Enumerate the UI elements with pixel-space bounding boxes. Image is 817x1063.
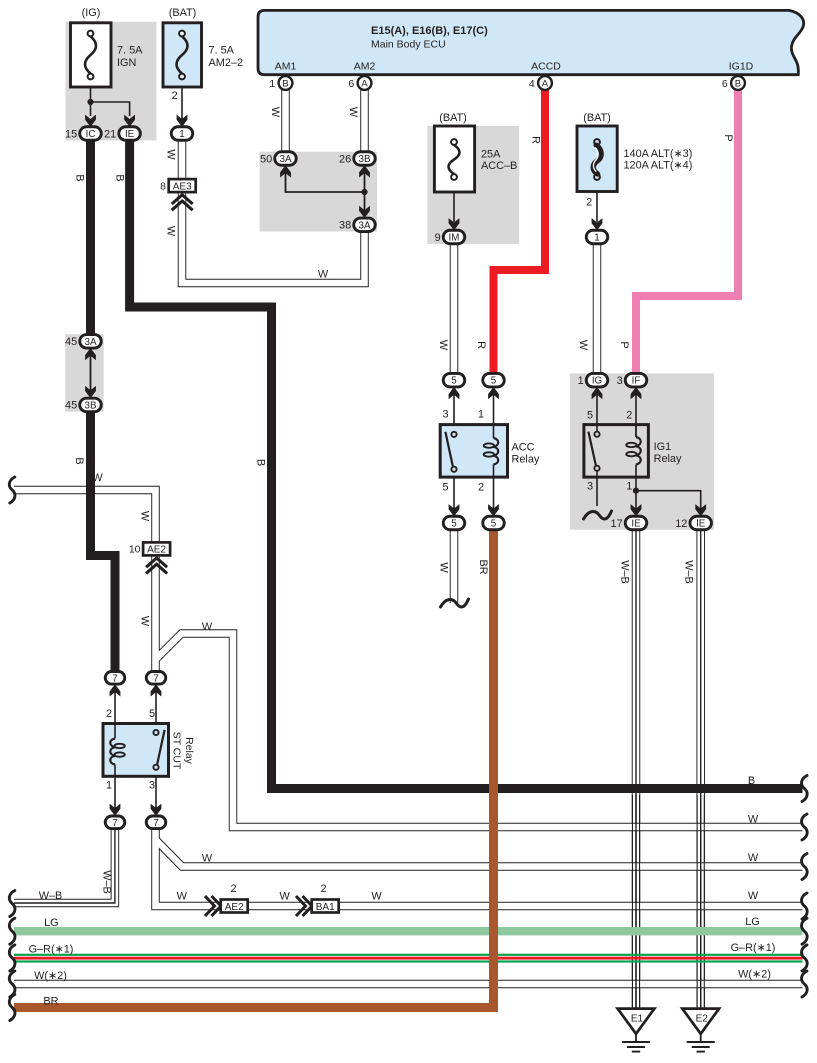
fusible link ALT 140A/120A (577, 126, 617, 192)
svg-text:15: 15 (65, 128, 77, 140)
connector 5 (ACC relay pin1) (483, 373, 505, 387)
break symbol right W row3 (802, 893, 808, 919)
svg-text:LG: LG (44, 917, 59, 929)
wire ST CUT pin3 stub (155, 770, 157, 812)
svg-text:AM2–2: AM2–2 (209, 57, 244, 69)
break symbol left LG (9, 918, 15, 944)
op-amp: Main Body ECU block (258, 10, 804, 74)
node junction at 3B column (361, 189, 367, 195)
svg-text:B: B (282, 79, 288, 90)
connector IE (pin 12) (675, 516, 711, 530)
wire ST CUT pin1 stub (114, 776, 116, 812)
connector 7 (ST CUT pin5) (146, 672, 166, 685)
svg-text:5: 5 (451, 519, 457, 530)
svg-text:BR: BR (477, 559, 489, 574)
connector 3A (pin 45) (65, 335, 101, 349)
op: ACC relay coil (494, 438, 499, 465)
svg-text:IF: IF (632, 376, 641, 387)
connector 1 below AM2-2 fuse (171, 127, 193, 141)
wire IG1 relay pin3 stub (596, 471, 598, 506)
svg-text:W–B: W–B (683, 560, 695, 584)
svg-text:W: W (318, 269, 329, 281)
svg-text:3: 3 (587, 480, 593, 492)
junction block shading (45 3A/3B connectors) (65, 334, 104, 411)
svg-text:IG: IG (592, 376, 602, 387)
svg-text:W: W (437, 340, 449, 351)
node junction on IG1 pin1 (633, 488, 639, 494)
svg-text:W(∗2): W(∗2) (738, 969, 771, 981)
wire LG bus (14, 927, 803, 935)
relay ST CUT (103, 724, 169, 777)
svg-text:4: 4 (529, 78, 535, 90)
break symbol right W row1 (802, 814, 808, 840)
arrow into IF (631, 387, 642, 399)
connector 5 (ACC relay pin3) (443, 373, 465, 387)
svg-text:3A: 3A (359, 220, 371, 231)
svg-text:W(∗2): W(∗2) (34, 970, 67, 982)
connector IE (pin 17) (611, 516, 647, 530)
arrow into connector 1 (AM2-2) (177, 115, 188, 127)
svg-text:45: 45 (65, 336, 77, 348)
svg-text:1: 1 (478, 409, 484, 421)
wire W from ECU AM1 to 50-3A (281, 90, 290, 152)
op: IG1 relay switch (594, 432, 599, 437)
svg-text:IE: IE (631, 519, 641, 530)
wire ST CUT pin5 stub (155, 688, 157, 730)
connector 5 (ACC relay pin5) (443, 516, 465, 530)
svg-text:E1: E1 (631, 1014, 644, 1025)
svg-text:A: A (361, 79, 368, 90)
svg-text:ACCD: ACCD (531, 61, 561, 73)
svg-text:B: B (255, 459, 267, 466)
svg-text:9: 9 (435, 232, 441, 244)
connector 7 (ST CUT pin3) (146, 816, 166, 829)
svg-text:38: 38 (339, 220, 351, 232)
break symbol left G-R (9, 945, 15, 971)
wire IG1 relay pin1 stub (635, 465, 637, 510)
wire E1/E2 vertical lines restored over bus crossings (632, 795, 704, 1009)
svg-text:3B: 3B (359, 154, 371, 165)
wire W from ECU AM2 to 26-3B (360, 90, 369, 152)
svg-text:2: 2 (626, 410, 632, 422)
svg-text:120A ALT(∗4): 120A ALT(∗4) (624, 160, 693, 172)
connector 7 (ST CUT pin1) (105, 816, 125, 829)
svg-text:AE2: AE2 (147, 545, 166, 556)
svg-text:ACC–B: ACC–B (481, 160, 517, 172)
svg-text:AM1: AM1 (275, 61, 297, 73)
svg-text:Main Body ECU: Main Body ECU (371, 39, 446, 51)
wire W-B from IG1 relay 12-IE to ground E2 (696, 530, 705, 1009)
fuse IGN 7.5A (71, 23, 112, 87)
node junction below IGN fuse (87, 99, 93, 105)
connector AE2 (bus, pin 2) (221, 900, 248, 913)
svg-text:3: 3 (149, 779, 155, 791)
svg-text:6: 6 (348, 78, 354, 90)
connector 3A (pin 38) (339, 218, 375, 232)
svg-text:3B: 3B (85, 400, 97, 411)
svg-text:W: W (164, 149, 176, 160)
svg-text:LG: LG (745, 916, 760, 928)
svg-text:21: 21 (104, 128, 116, 140)
svg-text:AE2: AE2 (225, 902, 244, 913)
svg-text:7: 7 (112, 818, 117, 829)
svg-text:E2: E2 (696, 1014, 709, 1025)
arrow into IM (449, 218, 460, 230)
break symbol left W(*2) (9, 971, 15, 997)
wire branch to IE (91, 102, 130, 116)
connector 3A (pin 50) (260, 152, 296, 166)
connector 5 (ACC relay pin2) (483, 516, 505, 530)
svg-text:W: W (280, 891, 291, 903)
svg-text:IGN: IGN (117, 57, 136, 69)
svg-text:50: 50 (260, 153, 272, 165)
wire B from IC to 45-3A (86, 140, 95, 335)
svg-text:2: 2 (172, 90, 178, 102)
connector BA1 (bus, pin 2) (312, 900, 339, 913)
op: ACC relay switch (451, 432, 456, 437)
svg-text:1: 1 (626, 480, 632, 492)
svg-text:BR: BR (43, 996, 58, 1008)
junction block shading (ACC-B fuse area) (427, 126, 519, 244)
arrow into ST CUT oval7 pin5 (151, 684, 162, 696)
break symbol right B (802, 776, 808, 802)
connector IC (pin 15) (65, 127, 101, 141)
arrow into ACC oval5 pin1 (488, 387, 499, 399)
connector 3B (pin 26) (339, 152, 375, 166)
svg-text:BA1: BA1 (316, 902, 335, 913)
svg-text:Relay: Relay (654, 453, 682, 465)
arrow into ACC oval5 pin3 (449, 387, 460, 399)
break symbol left W (9, 477, 15, 503)
svg-text:P: P (722, 134, 734, 141)
wire lead from AM2-2 fuse to connector 1 (181, 79, 183, 122)
svg-text:R: R (529, 136, 541, 144)
svg-text:IG1D: IG1D (729, 61, 754, 73)
wire link between 50-3A and junction (286, 171, 365, 192)
connector 1 below ALT fuse (586, 230, 608, 244)
connector AE3 (pin 8) (160, 179, 196, 192)
arrow into 12-IE (695, 504, 706, 516)
svg-text:26: 26 (339, 153, 351, 165)
svg-text:7. 5A: 7. 5A (117, 45, 143, 57)
arrow into 26-3B (359, 165, 370, 177)
ground E2 (682, 1009, 719, 1052)
arrow into connector 1 (ALT) (592, 218, 603, 230)
wire G-R bus (14, 954, 803, 963)
svg-text:(BAT): (BAT) (439, 112, 467, 124)
svg-text:B: B (748, 775, 755, 787)
arrow into ST CUT oval7 pin3 (151, 804, 162, 816)
svg-text:W: W (269, 107, 281, 118)
svg-text:W: W (577, 340, 589, 351)
svg-text:25A: 25A (481, 149, 501, 161)
pin 6 (A) of ECU (348, 76, 371, 90)
svg-text:B: B (73, 174, 85, 181)
arrow into IG (592, 387, 603, 399)
svg-text:8: 8 (160, 180, 166, 192)
chevron marker before AE2 (bus) (205, 896, 215, 916)
pin 1 (B) of ECU (269, 76, 292, 90)
svg-text:7: 7 (153, 673, 158, 684)
svg-text:P: P (618, 341, 630, 348)
wire B from IE down, right, down and right to B bus break (130, 140, 803, 789)
svg-text:W: W (748, 814, 759, 826)
svg-text:5: 5 (491, 519, 497, 530)
arrow into 45-3B (85, 386, 96, 398)
wire ACC relay pin3 stub (453, 390, 455, 432)
relay IG1 (584, 425, 649, 478)
wire lead from ACC-B fuse to IM (453, 180, 455, 222)
wire W from ACC relay pin5 down to cut mark (450, 530, 459, 603)
wire IG1 relay pin2 stub (635, 390, 637, 437)
break symbol right LG (802, 918, 808, 944)
svg-text:1: 1 (269, 78, 275, 90)
wire W from connector 1 through AE3 down, right, up to 38-3A (182, 140, 365, 283)
arrow into 50-3A (280, 165, 291, 177)
svg-text:3: 3 (442, 409, 448, 421)
break symbol left BR (9, 995, 15, 1021)
svg-text:3A: 3A (85, 337, 97, 348)
svg-text:5: 5 (442, 481, 448, 493)
connector IF (pin 3) (617, 373, 647, 387)
wire ACC relay pin5 stub (453, 472, 455, 511)
svg-text:W: W (139, 616, 151, 627)
svg-text:3: 3 (617, 375, 623, 387)
relay ACC (440, 425, 507, 478)
svg-text:IC: IC (86, 129, 96, 140)
svg-text:W–B: W–B (39, 890, 63, 902)
svg-text:5: 5 (491, 376, 497, 387)
connector IG (pin 1) (578, 373, 608, 387)
svg-text:7: 7 (112, 673, 117, 684)
arrow into 38-3A (359, 206, 370, 218)
svg-text:W: W (139, 511, 151, 522)
svg-text:12: 12 (675, 518, 687, 530)
svg-text:IE: IE (125, 129, 135, 140)
arrow into 45-3A (85, 348, 96, 360)
svg-text:W: W (347, 107, 359, 118)
svg-text:W: W (371, 891, 382, 903)
svg-text:W: W (202, 853, 213, 865)
svg-text:5: 5 (149, 708, 155, 720)
break symbol right G-R (802, 945, 808, 971)
wire BR from ACC relay pin2 down and left to break (14, 530, 494, 1008)
connector AE2 (pin 10) (129, 542, 170, 555)
arrow into ST CUT oval7 pin2 (110, 684, 121, 696)
break symbol left W-B (9, 891, 15, 917)
chevron marker before BA1 (bus) (296, 896, 306, 916)
svg-text:2: 2 (320, 883, 326, 895)
svg-text:IE: IE (696, 519, 706, 530)
break symbol right W row2 (802, 854, 808, 880)
svg-text:ST CUT: ST CUT (171, 732, 183, 770)
svg-text:(IG): (IG) (82, 7, 101, 19)
connector 7 (ST CUT pin2) (105, 672, 125, 685)
wire W from ST CUT pin3 oval down to AE2/BA1 bus row3 (156, 829, 803, 906)
svg-text:W–B: W–B (618, 560, 630, 584)
fuse AM2-2 7.5A (163, 23, 202, 87)
arrow into 17-IE (631, 504, 642, 516)
pin 4 (A) of ECU (529, 76, 552, 90)
arrow into ACC lower oval5 pin5 (449, 504, 460, 516)
wire ACC relay pin2 stub (493, 465, 495, 512)
svg-text:W–B: W–B (101, 870, 113, 894)
svg-text:W: W (92, 472, 103, 484)
svg-text:ACC: ACC (512, 442, 535, 454)
svg-text:5: 5 (451, 376, 457, 387)
junction block shading (3A/3B connectors) (260, 152, 378, 232)
svg-text:Relay: Relay (512, 454, 540, 466)
svg-text:Relay: Relay (183, 737, 195, 765)
svg-text:5: 5 (587, 410, 593, 422)
svg-text:W: W (748, 890, 759, 902)
wire IG1 relay pin5 stub (596, 390, 598, 431)
svg-text:6: 6 (722, 78, 728, 90)
svg-text:10: 10 (129, 544, 141, 556)
connector IM (pin 9) (435, 230, 465, 244)
svg-text:1: 1 (106, 779, 112, 791)
wire link between 45-3A and 45-3B (90, 352, 92, 394)
svg-text:1: 1 (179, 129, 184, 140)
wire W bus from left break through AE2(10) to ST CUT relay pin5 oval (14, 490, 803, 827)
svg-text:R: R (475, 341, 487, 349)
fuse ACC-B 25A (434, 126, 474, 192)
svg-text:(BAT): (BAT) (169, 7, 197, 19)
connector 3B (pin 45) (65, 398, 101, 412)
svg-text:7. 5A: 7. 5A (209, 45, 235, 57)
connector IE (pin 21) (104, 127, 140, 141)
svg-text:W: W (748, 852, 759, 864)
svg-text:B: B (73, 457, 85, 464)
wire W-B from IG1 relay 17-IE to ground E1 (632, 530, 641, 1009)
svg-text:W: W (164, 226, 176, 237)
arrow into ST CUT oval7 pin1 (110, 804, 121, 816)
arrow into IE (124, 115, 135, 127)
svg-text:W: W (437, 562, 449, 573)
wire IG1 branch pin1 to 12-IE (636, 491, 701, 509)
svg-text:A: A (542, 79, 549, 90)
pin 6 (B) of ECU (722, 76, 745, 90)
arrow into IC (85, 115, 96, 127)
op: IG1 relay coil (636, 437, 641, 465)
svg-text:(BAT): (BAT) (583, 112, 611, 124)
svg-text:W: W (202, 621, 213, 633)
svg-text:B: B (114, 174, 126, 181)
op: ST CUT relay coil (110, 739, 115, 765)
junction block shading (IG fuse area) (66, 22, 157, 141)
chevron marker below AE3 (172, 195, 193, 204)
svg-text:140A ALT(∗3): 140A ALT(∗3) (624, 148, 693, 160)
break symbol right W(*2) (802, 971, 808, 997)
svg-text:AM2: AM2 (354, 61, 376, 73)
svg-text:IG1: IG1 (654, 441, 672, 453)
svg-text:1: 1 (578, 375, 584, 387)
wire W from ACC-B fuse IM to ACC relay (450, 244, 459, 375)
svg-text:3A: 3A (280, 154, 292, 165)
op: ST CUT relay switch (153, 730, 158, 735)
wire R from ECU ACCD to ACC relay (494, 90, 546, 375)
svg-text:7: 7 (153, 818, 158, 829)
svg-text:B: B (735, 79, 741, 90)
svg-text:2: 2 (106, 708, 112, 720)
wire W(*2) bus (14, 980, 803, 989)
wire lead from IGN fuse to junction (90, 79, 92, 116)
svg-text:G–R(∗1): G–R(∗1) (29, 944, 74, 956)
svg-text:W: W (177, 891, 188, 903)
arrow into ACC lower oval5 pin2 (488, 504, 499, 516)
svg-text:G–R(∗1): G–R(∗1) (731, 942, 776, 954)
wire W-B from ST CUT pin1 oval down and left to break (14, 829, 115, 903)
svg-text:2: 2 (586, 197, 592, 209)
wire W from ALT fuse 1 to IG1 relay IG (593, 244, 602, 375)
cut mark below ACC relay pin5 wire (441, 599, 469, 607)
wire ACC relay pin1 stub (493, 390, 495, 438)
svg-text:2: 2 (230, 883, 236, 895)
svg-text:45: 45 (65, 400, 77, 412)
wire W branch from ST CUT pin5 wire diagonal right then down to W bus row1 (156, 634, 803, 828)
svg-text:IM: IM (449, 233, 460, 244)
svg-text:E15(A), E16(B), E17(C): E15(A), E16(B), E17(C) (371, 25, 488, 37)
svg-text:1: 1 (594, 233, 599, 244)
wire W branch diagonal to W bus row2 (156, 840, 803, 867)
relay block shading (IG1 relay) (570, 373, 714, 529)
wire B from 45-3B jog to ST CUT pin2 oval (91, 411, 116, 671)
wire P from ECU IG1D to IG1 relay IF (636, 90, 738, 375)
wire lead from ALT fuse to connector 1 (596, 192, 598, 223)
svg-text:17: 17 (611, 518, 623, 530)
svg-text:AE3: AE3 (173, 181, 192, 192)
svg-text:2: 2 (478, 481, 484, 493)
wire link between 26-3B and 38-3A (364, 171, 366, 212)
wire ST CUT pin2 stub (114, 688, 116, 724)
ground E1 (618, 1009, 655, 1052)
cut mark below IG1 relay pin3 (584, 511, 612, 519)
chevron marker below AE2(10) (146, 558, 167, 567)
